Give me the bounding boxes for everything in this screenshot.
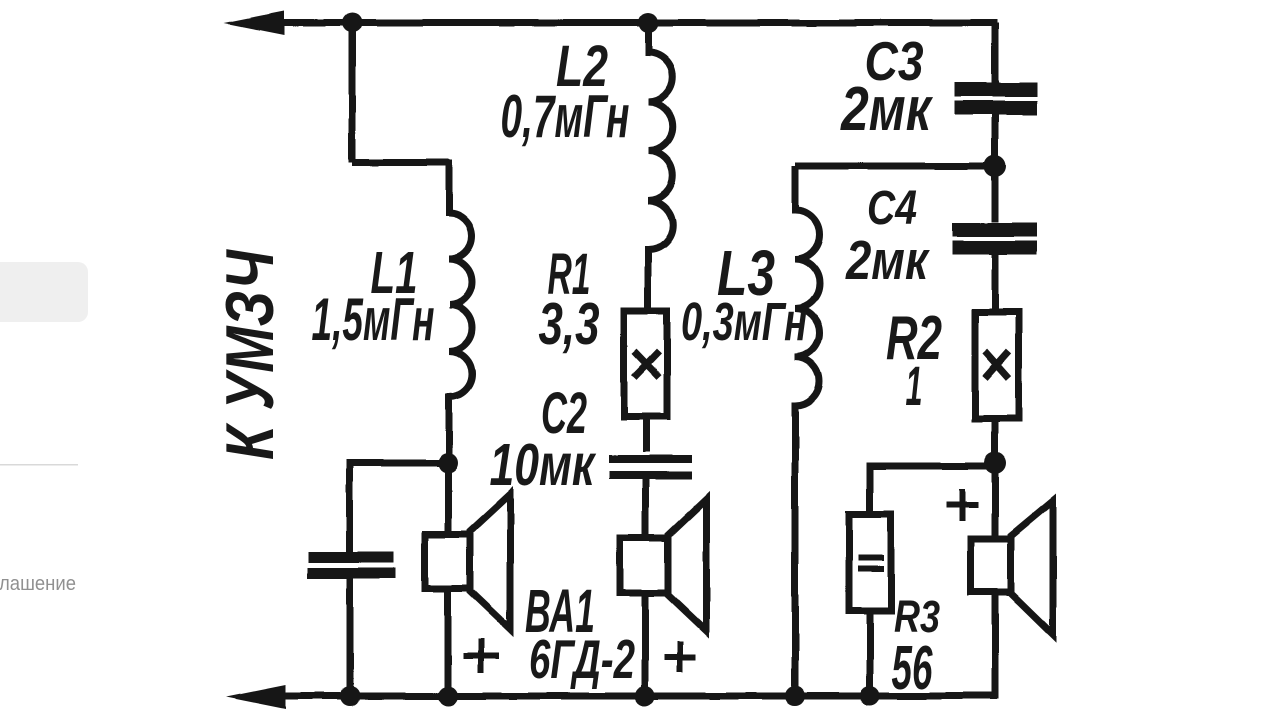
- speaker BA3 box: [971, 539, 1011, 592]
- wire from top bus down to L1 branch: [349, 23, 356, 162]
- wire right bus down from top: [992, 23, 999, 84]
- wire junction to C1 branch: [350, 463, 448, 552]
- capacitor C3 plates: [955, 83, 1037, 97]
- svg-text:3,3: 3,3: [539, 291, 600, 357]
- wire bottom bus: [250, 693, 997, 700]
- wire C3 to junction: [992, 114, 999, 166]
- wire C2 to speaker BA2: [643, 479, 650, 538]
- resistor R3: [849, 514, 891, 611]
- node L2 top junction: [638, 13, 658, 33]
- svg-text:2мк: 2мк: [845, 229, 930, 291]
- wire junction to speaker BA3: [992, 463, 999, 539]
- svg-text:0,3мГн: 0,3мГн: [681, 292, 807, 352]
- svg-text:2мк: 2мк: [840, 75, 933, 144]
- wire BA3 to bottom bus: [992, 592, 999, 699]
- wire top bus arrowhead: [224, 11, 284, 35]
- wire R3 to bottom bus: [867, 611, 874, 696]
- wire junction to R3 branch: [870, 466, 995, 514]
- wire bottom bus arrowhead: [226, 685, 286, 709]
- node C3-L3 junction: [984, 155, 1006, 177]
- wire R2 to junction: [992, 419, 999, 463]
- plus sign BA3: [946, 489, 978, 521]
- svg-text:10мк: 10мк: [490, 432, 597, 498]
- node top-left junction: [342, 13, 362, 33]
- wire BA1 to bottom bus: [445, 588, 452, 696]
- node bottom junction R3: [860, 686, 880, 706]
- resistor R2: [975, 312, 1019, 419]
- wire BA2 to bottom bus: [642, 593, 649, 696]
- svg-text:56: 56: [892, 634, 933, 703]
- inductor L1: [449, 159, 472, 463]
- speaker BA2 cone: [668, 499, 706, 631]
- UI gray rounded panel: [0, 262, 88, 322]
- speaker BA1 box: [425, 534, 470, 588]
- node bottom junction L3: [785, 686, 805, 706]
- plus sign BA2: [664, 641, 696, 672]
- wire junction to L3: [795, 163, 995, 170]
- svg-text:C4: C4: [867, 182, 917, 235]
- svg-text:6ГД-2: 6ГД-2: [529, 628, 635, 690]
- speaker BA3 cone: [1011, 501, 1053, 634]
- resistor R1: [624, 311, 667, 417]
- inductor L2: [648, 23, 673, 311]
- svg-text:1,5мГн: 1,5мГн: [312, 286, 435, 353]
- wire R1 to C2: [643, 417, 650, 452]
- node bottom junction BA2: [635, 686, 655, 706]
- svg-text:лашение: лашение: [0, 573, 76, 595]
- wire horizontal into L1: [352, 159, 449, 166]
- capacitor C1 plates: [308, 552, 394, 563]
- wire C4 to R2: [992, 254, 999, 312]
- capacitor C2 plates: [609, 455, 692, 463]
- svg-text:К УМЗЧ: К УМЗЧ: [212, 248, 288, 460]
- inductor L3: [795, 166, 820, 696]
- svg-text:1: 1: [906, 354, 923, 417]
- speaker BA1 cone: [470, 494, 510, 629]
- wire C1 to bottom bus: [347, 578, 354, 696]
- UI divider line: [0, 464, 78, 466]
- capacitor C4 plates: [952, 223, 1037, 237]
- node R2-bottom junction: [984, 452, 1006, 474]
- plus sign BA1: [463, 639, 499, 673]
- svg-text:0,7мГн: 0,7мГн: [501, 83, 630, 150]
- wire junction to C4: [992, 166, 999, 222]
- wire top bus: [248, 20, 997, 27]
- node bottom junction C1: [340, 686, 360, 706]
- wire L1 junction to speaker BA1: [445, 463, 452, 534]
- node L1-bottom junction: [438, 453, 458, 473]
- node bottom junction BA1: [438, 686, 458, 706]
- speaker BA2 box: [620, 538, 668, 593]
